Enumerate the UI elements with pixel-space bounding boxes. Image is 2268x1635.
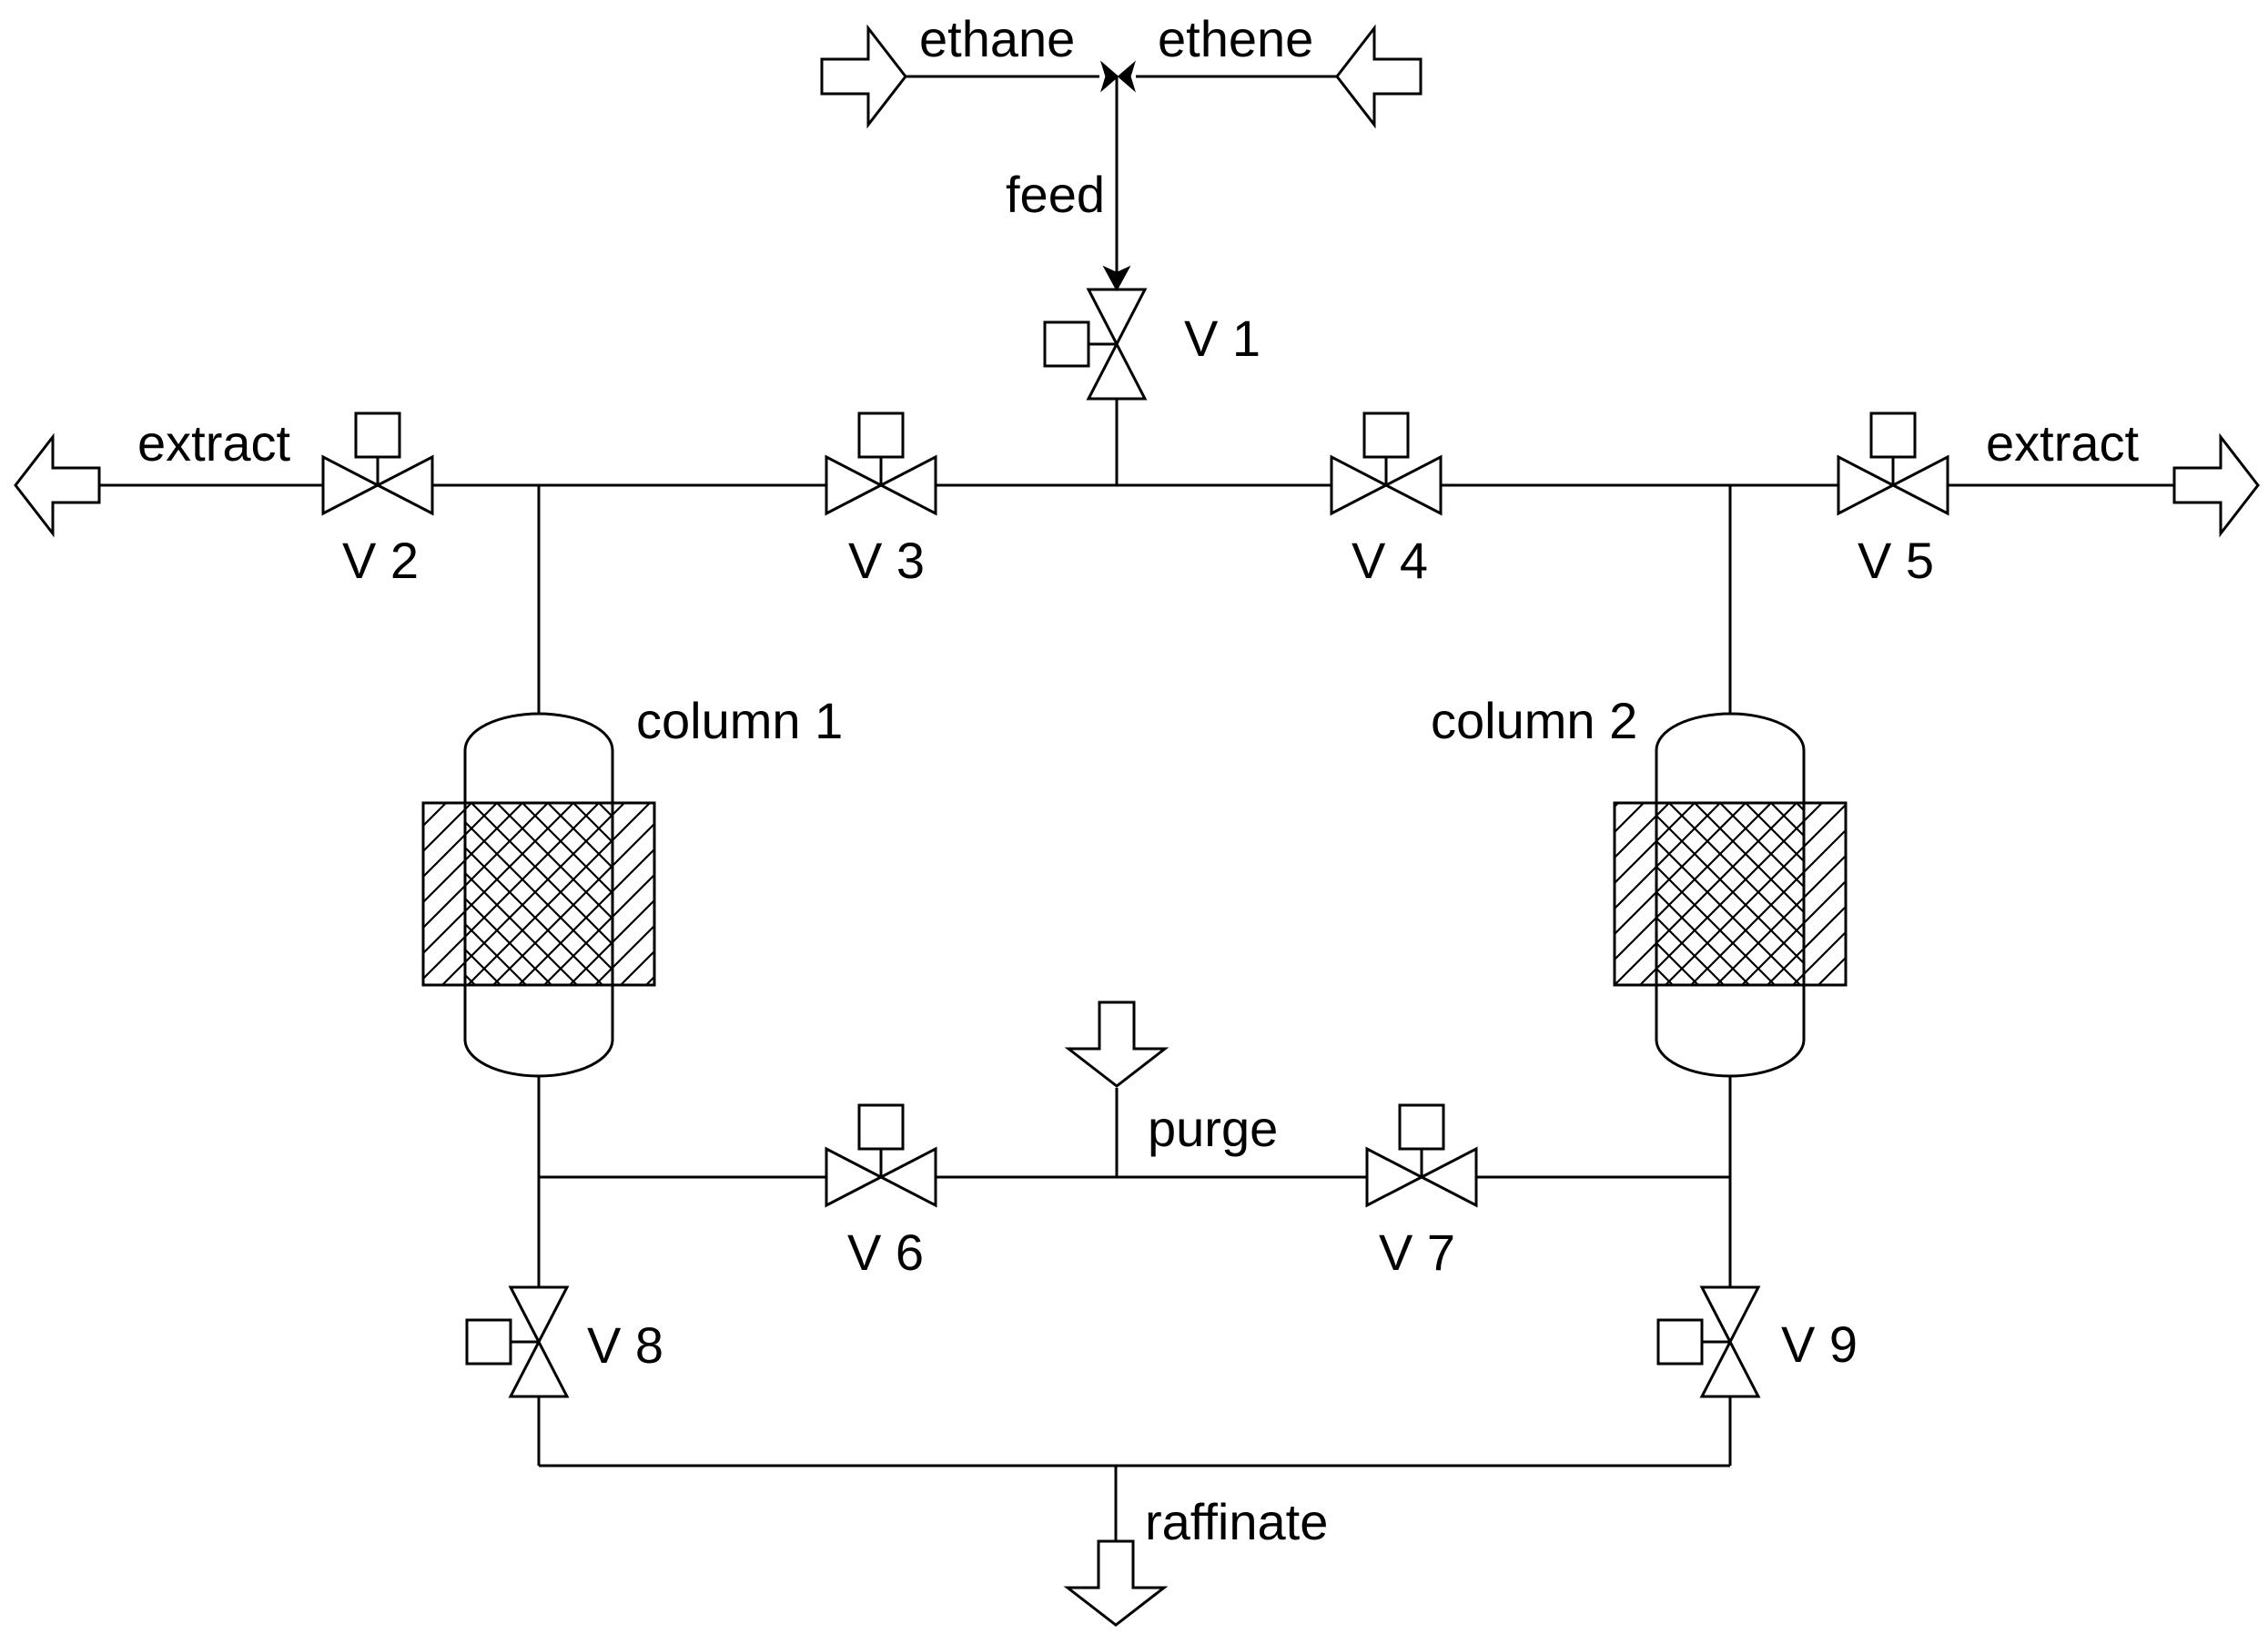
svg-text:feed: feed — [1006, 166, 1105, 223]
svg-text:extract: extract — [1986, 414, 2139, 472]
svg-text:ethane: ethane — [919, 10, 1075, 67]
svg-text:V 6: V 6 — [847, 1224, 924, 1281]
svg-text:column 1: column 1 — [636, 692, 843, 749]
svg-text:V 3: V 3 — [848, 532, 925, 589]
svg-text:raffinate: raffinate — [1145, 1493, 1328, 1550]
svg-text:V 1: V 1 — [1184, 310, 1261, 367]
svg-text:extract: extract — [137, 414, 290, 472]
svg-text:purge: purge — [1148, 1100, 1278, 1157]
svg-text:V 4: V 4 — [1352, 532, 1428, 589]
svg-text:V 9: V 9 — [1781, 1315, 1858, 1373]
svg-text:column 2: column 2 — [1431, 692, 1637, 749]
svg-text:V 7: V 7 — [1379, 1224, 1455, 1281]
svg-text:V 2: V 2 — [342, 532, 419, 589]
svg-text:V 8: V 8 — [587, 1316, 663, 1374]
svg-text:V 5: V 5 — [1858, 532, 1934, 589]
svg-text:ethene: ethene — [1158, 10, 1313, 67]
